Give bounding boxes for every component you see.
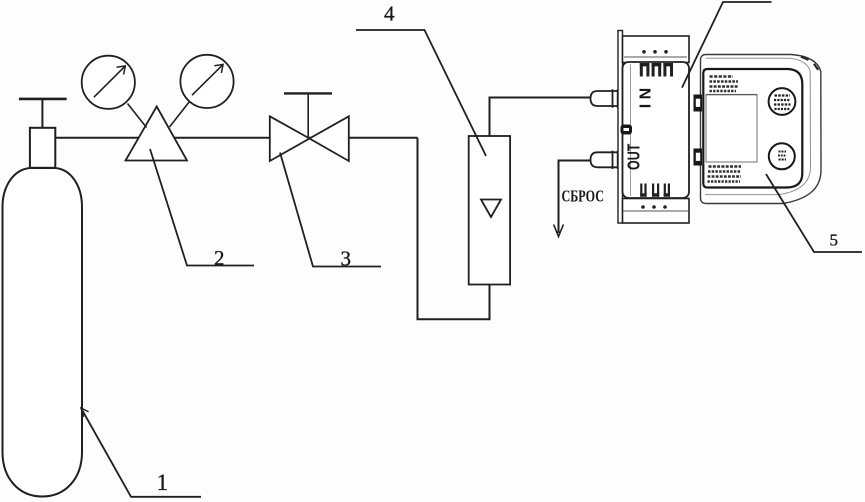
label СБРОС [562, 187, 605, 206]
valve 3 stem [307, 93, 309, 138]
cylinder valve stem [41, 99, 43, 128]
analyzer latch clip lower [694, 149, 703, 166]
rotameter 4 tube [469, 136, 510, 285]
OUT nipple connector [591, 151, 619, 169]
svg-text:СБРОС: СБРОС [562, 187, 605, 206]
valve 3 right triangle [310, 116, 349, 161]
svg-text:4: 4 [384, 2, 395, 26]
analyzer top text block [710, 77, 739, 92]
valve 3 left triangle [270, 116, 310, 161]
cylinder valve neck [30, 128, 55, 168]
gauge stem right [170, 102, 190, 128]
rotameter float triangle [481, 200, 501, 218]
leader line 2 [150, 149, 254, 266]
leader line 3 [280, 153, 381, 267]
docking module top comb clips [640, 63, 673, 77]
wire OUT nipple to vent [559, 161, 591, 234]
analyzer shell seam [705, 58, 811, 194]
leader line 4 [356, 30, 486, 156]
analyzer face plate [703, 69, 802, 188]
docking module side clip (black) [621, 125, 633, 135]
wire main pipe from cylinder to down-turn [55, 137, 417, 139]
analyzer corner bevel accent [801, 57, 818, 70]
vent arrowhead [554, 225, 564, 237]
svg-text:2: 2 [214, 246, 225, 270]
docking module left spine [618, 31, 623, 224]
label OUT (rotated) [624, 143, 644, 170]
label 1 [157, 470, 169, 495]
label 3 [341, 247, 352, 271]
svg-text:1: 1 [157, 470, 169, 495]
label 2 [214, 246, 225, 270]
docking module top cap [623, 36, 690, 63]
docking module main body [623, 62, 690, 198]
svg-text:OUT: OUT [624, 143, 644, 170]
analyzer bottom text block [708, 167, 742, 182]
regulator 2 triangle [126, 107, 188, 161]
docking module bottom comb clips [640, 184, 670, 197]
svg-text:5: 5 [830, 231, 839, 250]
label IN (rotated) [638, 83, 655, 108]
analyzer latch clip upper [694, 95, 703, 112]
label 5 [830, 231, 839, 250]
gauge left circle [82, 56, 135, 109]
leader line 5 [766, 174, 862, 252]
leader line 1 [81, 408, 201, 497]
cylinder valve T-handle [19, 98, 67, 101]
leader line top (adapter) [682, 2, 772, 88]
svg-text:IN: IN [638, 83, 655, 108]
gauge right circle [180, 55, 233, 108]
label 4 [384, 2, 395, 26]
analyzer 5 outer shell [701, 55, 822, 204]
docking module bottom cap [623, 199, 690, 224]
gas cylinder 1 body [3, 168, 83, 497]
wire rotameter top to IN nipple [490, 98, 592, 137]
analyzer top button [769, 88, 796, 115]
IN nipple connector [591, 89, 619, 107]
analyzer display window [706, 95, 757, 163]
analyzer bottom button [769, 143, 795, 169]
valve 3 T-handle [284, 92, 332, 94]
gauge stem left [128, 104, 147, 128]
wire vertical drop after valve [418, 138, 490, 319]
svg-text:3: 3 [341, 247, 352, 271]
